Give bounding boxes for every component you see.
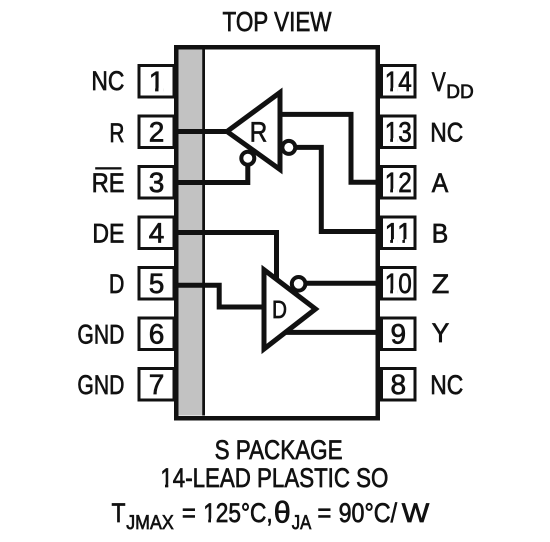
svg-text:R: R [109,118,124,148]
svg-text:GND: GND [77,370,124,400]
svg-text:11: 11 [385,218,412,249]
svg-text:DE: DE [92,219,124,249]
svg-text:=: = [317,498,331,528]
svg-text:TOP VIEW: TOP VIEW [223,6,332,37]
svg-text:DD: DD [446,81,474,103]
svg-text:D: D [272,296,287,324]
svg-text:125°C,: 125°C, [203,498,273,528]
svg-text:14-LEAD PLASTIC SO: 14-LEAD PLASTIC SO [160,463,388,493]
svg-text:NC: NC [430,370,463,400]
svg-text:=: = [182,498,196,528]
svg-text:12: 12 [385,167,412,198]
svg-text:S PACKAGE: S PACKAGE [215,435,343,465]
svg-text:A: A [432,168,449,198]
svg-text:2: 2 [149,117,165,148]
svg-text:Z: Z [432,269,450,299]
svg-text:9: 9 [390,319,406,350]
svg-text:6: 6 [149,319,165,350]
svg-text:3: 3 [149,167,165,198]
svg-text:5: 5 [149,268,165,299]
svg-text:JA: JA [292,512,312,534]
svg-text:B: B [432,219,449,249]
svg-text:T: T [112,498,126,528]
svg-text:4: 4 [149,218,165,249]
svg-text:7: 7 [149,369,165,400]
svg-text:NC: NC [91,66,124,96]
svg-text:W: W [402,498,430,528]
svg-text:GND: GND [77,320,124,350]
svg-text:R: R [250,117,268,148]
svg-text:NC: NC [430,118,463,148]
svg-text:JMAX: JMAX [126,512,173,534]
svg-text:D: D [109,269,125,299]
svg-text:Y: Y [432,318,450,348]
svg-text:θ: θ [274,496,291,529]
svg-text:1: 1 [149,66,165,97]
svg-text:14: 14 [385,66,412,97]
svg-text:8: 8 [390,369,406,400]
svg-text:10: 10 [385,268,412,299]
svg-text:V: V [432,67,446,97]
svg-text:90°C/: 90°C/ [339,498,398,528]
svg-text:RE: RE [92,168,125,198]
svg-text:13: 13 [385,117,412,148]
